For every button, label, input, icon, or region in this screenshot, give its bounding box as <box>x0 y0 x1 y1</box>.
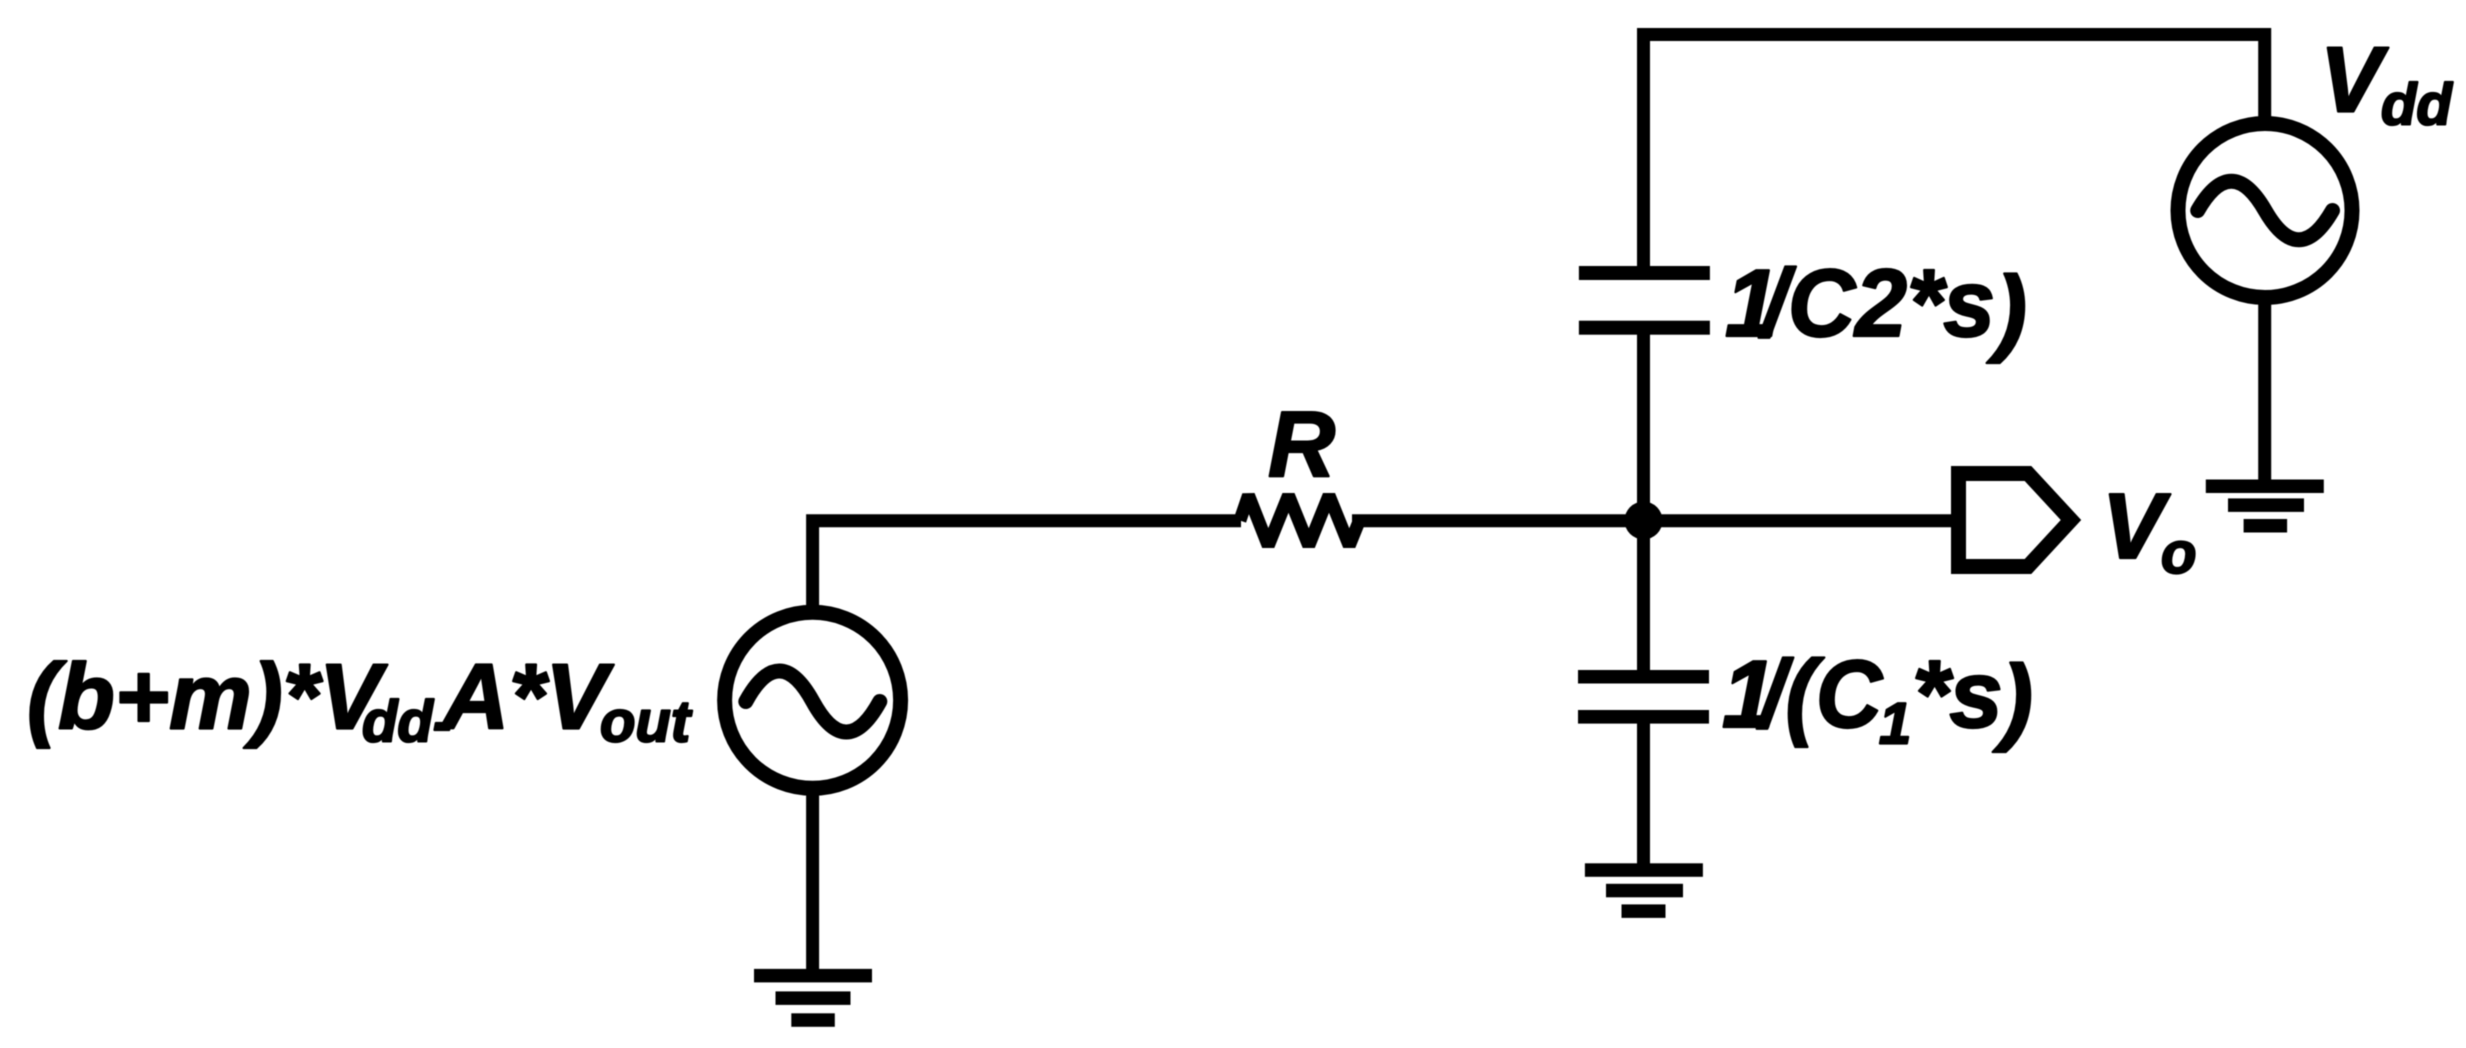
svg-text:(b+m)*Vdd-A*Vout: (b+m)*Vdd-A*Vout <box>27 645 693 755</box>
source V1 circle (b+m)*Vdd-A*Vout <box>725 612 901 788</box>
wire node down to C1 <box>1637 517 1650 671</box>
node junction dot <box>1625 502 1663 540</box>
wire C1 to ground <box>1637 722 1650 866</box>
capacitor C2 top plate <box>1579 266 1710 280</box>
source V2 sine wave <box>2198 181 2333 240</box>
wire source V1 to ground <box>806 788 819 970</box>
svg-text:*s: *s <box>1912 641 2003 748</box>
svg-text:/(C: /(C <box>1756 641 1883 748</box>
source V2 Vdd circle <box>2178 124 2352 298</box>
output port Vo pentagon <box>1959 474 2072 567</box>
wire top feedback (node column up, across, down to Vdd source) <box>1644 35 2265 273</box>
wire source V2 to ground <box>2258 296 2271 481</box>
ground under C1 <box>1585 863 1703 877</box>
capacitor C1 bottom plate <box>1578 710 1709 724</box>
ground under source V1 <box>754 969 872 983</box>
wire node to output port <box>1644 514 1952 527</box>
svg-text:1: 1 <box>1879 692 1911 757</box>
source V1 sine wave <box>746 671 880 732</box>
resistor R zigzag <box>1240 495 1360 545</box>
capacitor C2 bottom plate <box>1579 321 1710 335</box>
wire resistor to node <box>1352 514 1644 527</box>
capacitor C1 top plate <box>1578 670 1709 684</box>
svg-text:R: R <box>1268 392 1335 496</box>
svg-text:/C2*s: /C2*s <box>1758 250 1995 357</box>
wire C2 bottom plate to node <box>1637 334 1650 524</box>
wire source V1 up to corner and right to resistor <box>813 521 1241 608</box>
ground under source V2 <box>2206 480 2324 494</box>
